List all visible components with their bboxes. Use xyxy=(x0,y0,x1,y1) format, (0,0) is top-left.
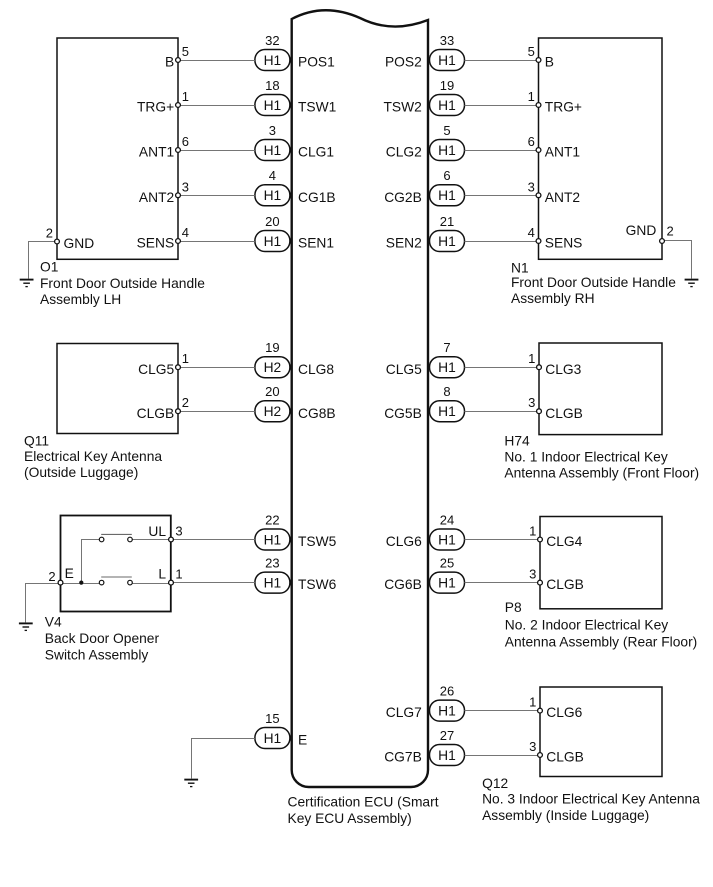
svg-text:Assembly (Inside Luggage): Assembly (Inside Luggage) xyxy=(482,808,649,823)
svg-text:SENS: SENS xyxy=(545,236,583,251)
switch contact circles upper xyxy=(99,537,104,542)
svg-text:SENS: SENS xyxy=(137,236,175,251)
svg-text:23: 23 xyxy=(265,555,279,570)
svg-text:CLG5: CLG5 xyxy=(138,362,174,377)
ground E ECU xyxy=(184,780,198,787)
wire E ECU to ground xyxy=(192,739,255,779)
svg-text:5: 5 xyxy=(528,44,535,59)
switch blade lower xyxy=(101,576,132,578)
svg-text:No. 1 Indoor Electrical Key: No. 1 Indoor Electrical Key xyxy=(504,450,667,465)
svg-text:CG8B: CG8B xyxy=(298,406,336,421)
svg-text:CLG7: CLG7 xyxy=(386,705,422,720)
wire xyxy=(465,411,537,413)
svg-text:CLGB: CLGB xyxy=(546,577,584,592)
svg-text:Key ECU Assembly): Key ECU Assembly) xyxy=(288,811,412,826)
wire E V4 to ground xyxy=(26,584,61,623)
connector oval H1 xyxy=(255,95,290,116)
svg-text:H1: H1 xyxy=(438,748,456,763)
wire xyxy=(465,105,537,107)
svg-text:CLG3: CLG3 xyxy=(545,362,581,377)
component box N1 Front Door Outside Handle Assembly RH xyxy=(539,38,663,259)
connector oval H1 xyxy=(430,357,465,378)
svg-text:3: 3 xyxy=(529,567,536,582)
svg-text:Assembly LH: Assembly LH xyxy=(40,292,121,307)
pin 2 CLGB Q11 xyxy=(176,409,181,414)
wire xyxy=(173,539,255,541)
svg-text:26: 26 xyxy=(440,683,454,698)
connector oval H1 xyxy=(430,572,465,593)
pin 3 CLGB H74 xyxy=(537,409,542,414)
svg-text:3: 3 xyxy=(528,179,535,194)
svg-text:32: 32 xyxy=(265,33,279,48)
svg-text:H1: H1 xyxy=(438,234,456,249)
pin 1 TRG+ O1 xyxy=(176,103,181,108)
svg-text:CLGB: CLGB xyxy=(545,406,583,421)
svg-text:3: 3 xyxy=(529,739,536,754)
svg-text:CG5B: CG5B xyxy=(384,406,422,421)
pin 1 CLG5 Q11 xyxy=(176,365,181,370)
svg-text:Front Door Outside Handle: Front Door Outside Handle xyxy=(511,275,676,290)
wire E row V4 xyxy=(63,583,99,585)
pin 1 CLG3 H74 xyxy=(537,365,542,370)
wire xyxy=(465,195,537,197)
svg-text:15: 15 xyxy=(265,711,279,726)
svg-text:2: 2 xyxy=(46,225,53,240)
svg-text:H1: H1 xyxy=(438,576,456,591)
svg-text:33: 33 xyxy=(440,33,454,48)
ECU body Certification ECU xyxy=(292,10,428,787)
component box O1 Front Door Outside Handle Assembly LH xyxy=(57,38,178,259)
svg-text:6: 6 xyxy=(443,168,450,183)
svg-text:21: 21 xyxy=(440,214,454,229)
svg-text:E: E xyxy=(298,733,307,748)
svg-text:H2: H2 xyxy=(264,404,282,419)
svg-text:V4: V4 xyxy=(45,615,62,630)
svg-text:H1: H1 xyxy=(264,188,282,203)
connector oval H1 xyxy=(255,529,290,550)
svg-text:20: 20 xyxy=(265,214,279,229)
svg-text:H74: H74 xyxy=(504,433,530,448)
svg-text:ANT2: ANT2 xyxy=(545,190,580,205)
svg-text:E: E xyxy=(65,566,74,581)
connector oval H1 xyxy=(430,700,465,721)
connector oval H1 xyxy=(430,231,465,252)
svg-text:H1: H1 xyxy=(438,98,456,113)
svg-text:Switch Assembly: Switch Assembly xyxy=(45,647,149,662)
svg-text:H1: H1 xyxy=(264,143,282,158)
svg-text:TSW1: TSW1 xyxy=(298,100,336,115)
ground O1 xyxy=(20,280,34,287)
wire xyxy=(465,710,538,712)
svg-text:CLG8: CLG8 xyxy=(298,362,334,377)
svg-text:TRG+: TRG+ xyxy=(545,100,582,115)
component box Q11 Electrical Key Antenna xyxy=(57,344,178,434)
svg-text:CLG2: CLG2 xyxy=(386,145,422,160)
svg-text:H1: H1 xyxy=(438,404,456,419)
svg-text:3: 3 xyxy=(269,123,276,138)
wire xyxy=(465,539,538,541)
svg-text:SEN1: SEN1 xyxy=(298,236,334,251)
svg-text:B: B xyxy=(545,55,554,70)
svg-text:Antenna Assembly (Front Floor): Antenna Assembly (Front Floor) xyxy=(504,466,699,481)
svg-text:CLGB: CLGB xyxy=(546,750,584,765)
pin 5 B N1 xyxy=(536,58,541,63)
wire xyxy=(180,241,255,243)
svg-text:19: 19 xyxy=(265,340,279,355)
pin 1 TRG+ N1 xyxy=(536,103,541,108)
svg-text:CLG5: CLG5 xyxy=(386,362,422,377)
svg-text:3: 3 xyxy=(175,524,182,539)
svg-text:SEN2: SEN2 xyxy=(386,236,422,251)
svg-text:25: 25 xyxy=(440,555,454,570)
svg-text:Certification ECU (Smart: Certification ECU (Smart xyxy=(288,794,439,809)
svg-text:TSW2: TSW2 xyxy=(383,100,421,115)
svg-text:H1: H1 xyxy=(438,360,456,375)
wire xyxy=(180,150,255,152)
svg-text:2: 2 xyxy=(667,223,674,238)
svg-text:5: 5 xyxy=(443,123,450,138)
svg-text:3: 3 xyxy=(528,395,535,410)
wire xyxy=(180,105,255,107)
pin 2 GND N1 xyxy=(660,239,665,244)
svg-text:27: 27 xyxy=(440,728,454,743)
svg-text:24: 24 xyxy=(440,512,454,527)
svg-text:1: 1 xyxy=(529,695,536,710)
switch contact circles lower xyxy=(99,580,104,585)
svg-text:B: B xyxy=(165,55,174,70)
svg-text:GND: GND xyxy=(626,223,657,238)
connector oval H2 xyxy=(255,357,290,378)
pin 1 L V4 xyxy=(169,580,174,585)
svg-text:18: 18 xyxy=(265,78,279,93)
pin 2 GND O1 xyxy=(55,239,60,244)
svg-text:ANT2: ANT2 xyxy=(139,190,174,205)
svg-text:6: 6 xyxy=(528,134,535,149)
svg-text:4: 4 xyxy=(182,225,189,240)
svg-text:TSW5: TSW5 xyxy=(298,534,337,549)
svg-text:POS2: POS2 xyxy=(385,55,422,70)
pin 4 SENS N1 xyxy=(536,239,541,244)
svg-text:CLG1: CLG1 xyxy=(298,145,334,160)
svg-text:(Outside Luggage): (Outside Luggage) xyxy=(24,465,138,480)
junction node E xyxy=(79,581,83,585)
component box Q12 No.3 Indoor Electrical Key Antenna xyxy=(540,687,662,777)
connector oval H1 xyxy=(430,140,465,161)
wire xyxy=(173,582,255,584)
pin 3 CLGB P8 xyxy=(538,580,543,585)
svg-text:GND: GND xyxy=(64,236,95,251)
wire xyxy=(465,755,538,757)
svg-text:P8: P8 xyxy=(505,600,522,615)
svg-text:POS1: POS1 xyxy=(298,55,335,70)
ground N1 xyxy=(685,280,699,287)
svg-text:2: 2 xyxy=(182,395,189,410)
connector oval H1 xyxy=(430,50,465,71)
wire xyxy=(465,582,538,584)
pin 6 ANT1 O1 xyxy=(176,148,181,153)
connector oval H1 xyxy=(255,231,290,252)
svg-text:H1: H1 xyxy=(438,188,456,203)
pin 1 CLG4 P8 xyxy=(538,537,543,542)
wire xyxy=(180,367,255,369)
pin 3 ANT2 O1 xyxy=(176,193,181,198)
svg-text:ANT1: ANT1 xyxy=(545,145,580,160)
svg-text:ANT1: ANT1 xyxy=(139,145,174,160)
svg-text:Assembly RH: Assembly RH xyxy=(511,291,595,306)
connector oval H1 xyxy=(430,401,465,422)
svg-text:H1: H1 xyxy=(438,53,456,68)
svg-text:6: 6 xyxy=(182,134,189,149)
wire xyxy=(465,150,537,152)
svg-text:Front Door Outside Handle: Front Door Outside Handle xyxy=(40,276,205,291)
wire xyxy=(180,195,255,197)
wire xyxy=(465,241,537,243)
ground V4 xyxy=(19,623,33,630)
connector oval H1 xyxy=(430,95,465,116)
switch blade upper xyxy=(101,533,132,535)
pin 4 SENS O1 xyxy=(176,239,181,244)
svg-text:1: 1 xyxy=(182,351,189,366)
svg-text:1: 1 xyxy=(529,524,536,539)
svg-text:UL: UL xyxy=(148,524,166,539)
connector oval H1 xyxy=(255,728,290,749)
pin 1 CLG6 Q12 xyxy=(538,708,543,713)
svg-text:H1: H1 xyxy=(264,53,282,68)
wire GND N1 xyxy=(662,241,692,279)
svg-text:H1: H1 xyxy=(438,532,456,547)
connector oval H1 xyxy=(430,185,465,206)
svg-text:22: 22 xyxy=(265,512,279,527)
svg-text:TRG+: TRG+ xyxy=(137,100,174,115)
svg-text:2: 2 xyxy=(48,569,55,584)
connector oval H1 xyxy=(255,572,290,593)
svg-text:CG7B: CG7B xyxy=(384,750,422,765)
svg-text:H1: H1 xyxy=(438,704,456,719)
svg-text:H1: H1 xyxy=(438,143,456,158)
svg-text:4: 4 xyxy=(528,225,535,240)
svg-text:Q12: Q12 xyxy=(482,776,508,791)
svg-text:1: 1 xyxy=(182,89,189,104)
wire xyxy=(465,367,537,369)
wire xyxy=(180,60,255,62)
svg-text:CLGB: CLGB xyxy=(137,406,175,421)
svg-text:CG2B: CG2B xyxy=(384,190,422,205)
svg-text:19: 19 xyxy=(440,78,454,93)
svg-text:Q11: Q11 xyxy=(24,433,49,448)
svg-text:H1: H1 xyxy=(264,532,282,547)
svg-text:TSW6: TSW6 xyxy=(298,577,337,592)
connector oval H2 xyxy=(255,401,290,422)
svg-text:Electrical Key Antenna: Electrical Key Antenna xyxy=(24,449,162,464)
svg-text:5: 5 xyxy=(182,44,189,59)
svg-text:CLG6: CLG6 xyxy=(546,705,582,720)
svg-text:H1: H1 xyxy=(264,576,282,591)
connector oval H1 xyxy=(255,50,290,71)
svg-text:CLG4: CLG4 xyxy=(546,534,582,549)
svg-text:1: 1 xyxy=(175,566,182,581)
pin 3 UL V4 xyxy=(169,537,174,542)
svg-text:1: 1 xyxy=(528,351,535,366)
component box H74 No.1 Indoor Electrical Key Antenna xyxy=(539,343,662,435)
pin 3 ANT2 N1 xyxy=(536,193,541,198)
svg-text:CG1B: CG1B xyxy=(298,190,336,205)
connector oval H1 xyxy=(430,745,465,766)
svg-text:H2: H2 xyxy=(264,360,282,375)
svg-text:H1: H1 xyxy=(264,234,282,249)
svg-text:Antenna Assembly (Rear Floor): Antenna Assembly (Rear Floor) xyxy=(505,635,697,650)
svg-text:N1: N1 xyxy=(511,260,529,275)
svg-text:H1: H1 xyxy=(264,731,282,746)
svg-text:No. 2 Indoor Electrical Key: No. 2 Indoor Electrical Key xyxy=(505,618,668,633)
connector oval H1 xyxy=(430,529,465,550)
svg-text:No. 3 Indoor Electrical Key An: No. 3 Indoor Electrical Key Antenna xyxy=(482,792,700,807)
svg-text:H1: H1 xyxy=(264,98,282,113)
svg-text:3: 3 xyxy=(182,179,189,194)
svg-text:7: 7 xyxy=(443,340,450,355)
pin 6 ANT1 N1 xyxy=(536,148,541,153)
wire xyxy=(180,411,255,413)
connector oval H1 xyxy=(255,185,290,206)
svg-text:L: L xyxy=(158,567,166,582)
svg-text:20: 20 xyxy=(265,384,279,399)
svg-text:CLG6: CLG6 xyxy=(386,534,422,549)
component box V4 Back Door Opener Switch Assembly xyxy=(61,516,171,612)
connector oval H1 xyxy=(255,140,290,161)
wire xyxy=(465,60,537,62)
wire GND O1 xyxy=(29,242,58,279)
svg-text:1: 1 xyxy=(528,89,535,104)
pin 5 B O1 xyxy=(176,58,181,63)
svg-text:O1: O1 xyxy=(40,260,58,275)
pin 3 CLGB Q12 xyxy=(538,753,543,758)
svg-text:4: 4 xyxy=(269,168,276,183)
svg-text:Back Door Opener: Back Door Opener xyxy=(45,631,160,646)
svg-text:CG6B: CG6B xyxy=(384,577,422,592)
component box P8 No.2 Indoor Electrical Key Antenna xyxy=(540,517,662,609)
svg-text:8: 8 xyxy=(443,384,450,399)
wire riser V4 xyxy=(82,540,100,584)
